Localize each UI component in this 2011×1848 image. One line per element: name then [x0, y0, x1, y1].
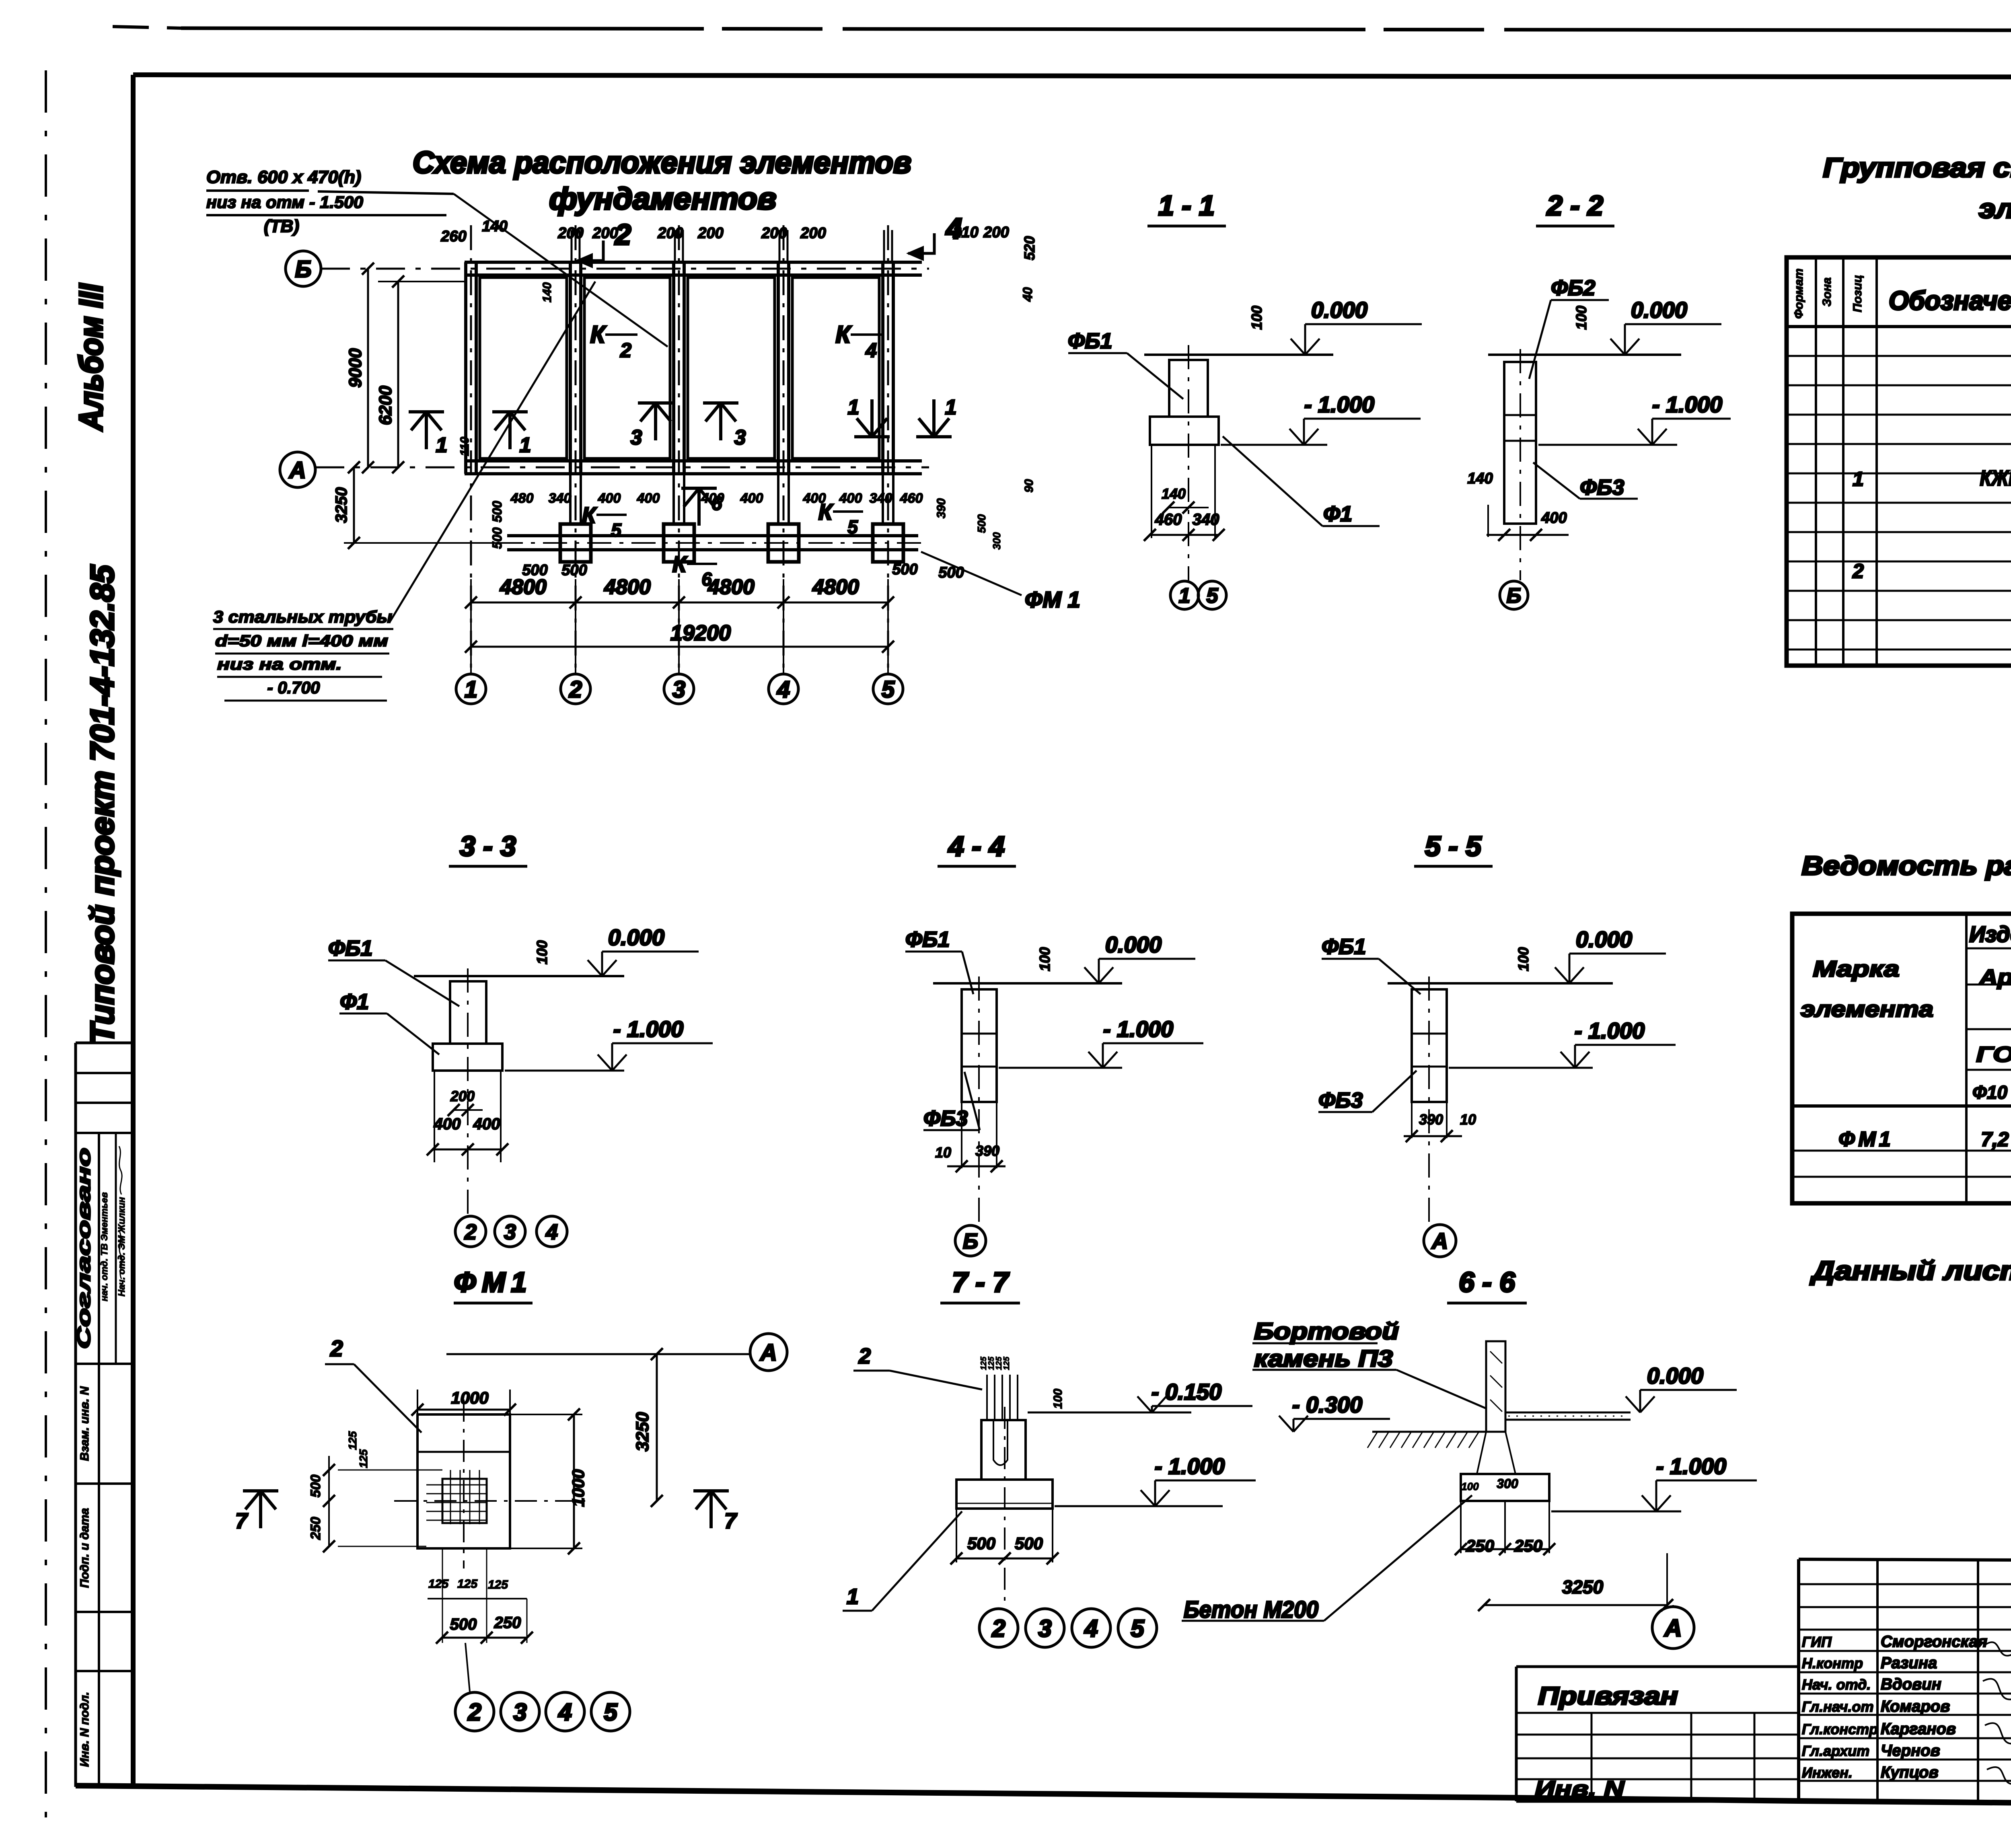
- svg-text:Ведомость расхода стали на: Ведомость расхода стали на элемент кг: [1802, 851, 2011, 880]
- detail ФМ1 section marks 7: [259, 1491, 262, 1528]
- svg-text:200: 200: [697, 225, 723, 242]
- svg-text:0.000: 0.000: [1576, 927, 1632, 952]
- svg-text:0.000: 0.000: [1105, 932, 1162, 957]
- svg-text:460: 460: [900, 491, 923, 506]
- section mark 6 upper: [697, 488, 701, 526]
- axis circle Б: [286, 251, 321, 286]
- detail ФМ1 dim 3250: [656, 1354, 658, 1501]
- svg-text:ГИП: ГИП: [1802, 1634, 1832, 1650]
- svg-text:7: 7: [235, 1509, 249, 1533]
- svg-text:4800: 4800: [707, 576, 755, 599]
- svg-text:ФБ3: ФБ3: [1580, 475, 1624, 500]
- wall stubs to strip: [569, 474, 572, 524]
- section 3-3 ground line: [414, 975, 624, 977]
- section 4-4 grid circle Б: [955, 1225, 986, 1256]
- svg-text:300: 300: [991, 532, 1003, 550]
- section 4-4 elevation -1.000: [999, 1067, 1122, 1069]
- svg-text:200: 200: [657, 225, 683, 242]
- section 7-7 floor line: [1028, 1412, 1191, 1414]
- svg-text:- 1.000: - 1.000: [1155, 1453, 1225, 1479]
- svg-text:Вдовин: Вдовин: [1881, 1675, 1941, 1693]
- svg-text:А: А: [1431, 1228, 1448, 1254]
- svg-text:5 - 5: 5 - 5: [1425, 830, 1482, 862]
- svg-text:камень П3: камень П3: [1254, 1346, 1393, 1372]
- svg-text:Привязан: Привязан: [1538, 1682, 1678, 1710]
- svg-text:0.000: 0.000: [1631, 297, 1687, 323]
- svg-text:Схема расположения элементов: Схема расположения элементов: [413, 146, 911, 180]
- svg-text:К: К: [672, 551, 688, 577]
- svg-text:340: 340: [549, 491, 572, 506]
- section 1-1 grid circles 1 and 5: [1170, 581, 1199, 609]
- section marks 1 right (down): [870, 399, 874, 437]
- svg-text:3250: 3250: [333, 487, 350, 523]
- svg-text:2: 2: [330, 1336, 343, 1361]
- svg-text:390: 390: [1419, 1111, 1443, 1128]
- svg-text:2: 2: [1852, 560, 1864, 582]
- spec table row lines: [1787, 355, 2011, 357]
- svg-text:А: А: [759, 1340, 777, 1366]
- svg-text:0.000: 0.000: [1647, 1363, 1703, 1388]
- svg-text:Согласовано: Согласовано: [73, 1148, 94, 1349]
- svg-text:Альбом III: Альбом III: [73, 283, 109, 432]
- section 7-7 centerline: [1004, 1407, 1005, 1607]
- svg-text:400: 400: [434, 1115, 461, 1133]
- svg-text:2: 2: [991, 1615, 1005, 1642]
- svg-text:3: 3: [1038, 1615, 1051, 1642]
- svg-text:10: 10: [935, 1144, 951, 1161]
- section 1-1 centerline: [1188, 345, 1189, 580]
- svg-text:Сморгонская: Сморгонская: [1881, 1633, 1987, 1651]
- axis Б centerline: [321, 268, 929, 270]
- svg-text:4800: 4800: [500, 576, 547, 599]
- svg-text:Нач. отд. ЭМ Жилкин: Нач. отд. ЭМ Жилкин: [116, 1197, 127, 1296]
- svg-text:500: 500: [975, 514, 988, 533]
- section 1-1 bottom dims: [1151, 445, 1152, 538]
- svg-text:ФМ 1: ФМ 1: [1025, 587, 1080, 612]
- section 6-6 curb stone: [1486, 1341, 1505, 1432]
- svg-text:480: 480: [510, 491, 534, 506]
- svg-text:400: 400: [839, 491, 862, 506]
- svg-text:ФБ1: ФБ1: [905, 927, 950, 952]
- svg-text:ГОСТ 5781 - 82: ГОСТ 5781 - 82: [1976, 1042, 2011, 1067]
- svg-text:3250: 3250: [633, 1412, 652, 1451]
- section 3-3 bottom dims: [434, 1071, 435, 1162]
- svg-text:ФБ1: ФБ1: [1068, 329, 1112, 353]
- svg-text:Обозначение: Обозначение: [1889, 286, 2011, 315]
- section 4-4 wall ФБ1/ФБ3: [962, 989, 997, 1102]
- svg-text:низ на отм.: низ на отм.: [217, 656, 342, 673]
- svg-text:Купцов: Купцов: [1881, 1764, 1939, 1781]
- axis circle А: [280, 452, 315, 487]
- svg-text:1: 1: [1853, 468, 1864, 490]
- svg-text:0.000: 0.000: [608, 925, 664, 950]
- svg-text:4800: 4800: [604, 576, 651, 599]
- svg-text:Взам. инв. N: Взам. инв. N: [78, 1386, 91, 1461]
- sidebar row lines: [76, 1072, 133, 1074]
- svg-text:4: 4: [865, 339, 877, 362]
- detail ФМ1 grid circles 2-5: [465, 1643, 470, 1692]
- svg-text:5: 5: [604, 1699, 618, 1726]
- svg-text:1: 1: [1179, 584, 1191, 608]
- section 1-1 ground line 0.000: [1144, 354, 1333, 356]
- svg-text:4: 4: [945, 213, 962, 245]
- leader from note to plan: [454, 194, 668, 347]
- svg-text:500: 500: [892, 561, 917, 578]
- svg-text:500: 500: [561, 562, 587, 579]
- svg-text:100: 100: [534, 940, 550, 964]
- svg-text:500: 500: [522, 562, 547, 579]
- svg-text:- 1.000: - 1.000: [1656, 1453, 1726, 1479]
- svg-text:- 1.000: - 1.000: [1103, 1016, 1173, 1042]
- svg-text:4: 4: [545, 1220, 558, 1244]
- main stamp left rows: [1799, 1583, 2011, 1585]
- section 3-3 centerline: [467, 968, 469, 1215]
- svg-text:250: 250: [494, 1614, 521, 1632]
- svg-text:90: 90: [1022, 479, 1036, 493]
- svg-text:Ф1: Ф1: [340, 990, 369, 1014]
- svg-text:Гл.нач.от: Гл.нач.от: [1802, 1698, 1874, 1715]
- svg-text:элементов: элементов: [1979, 193, 2011, 224]
- svg-text:40: 40: [1020, 287, 1035, 302]
- svg-text:390: 390: [975, 1143, 999, 1159]
- main stamp outline: [1797, 1559, 1800, 1802]
- svg-text:1: 1: [945, 396, 957, 419]
- svg-text:КЖИ - С1: КЖИ - С1: [1980, 466, 2011, 490]
- svg-text:1: 1: [520, 434, 531, 457]
- sheet fold dashed top line: [113, 27, 181, 28]
- steel table main verticals: [1965, 914, 1968, 1203]
- svg-text:125: 125: [346, 1431, 359, 1450]
- svg-text:ФБ1: ФБ1: [1322, 935, 1366, 959]
- svg-text:4: 4: [558, 1699, 572, 1726]
- svg-text:125: 125: [488, 1578, 508, 1591]
- plan bottom wall: [465, 459, 922, 463]
- section 2-2 elevation -1.000: [1538, 444, 1677, 446]
- section 4-4 centerline: [978, 976, 980, 1223]
- svg-text:5: 5: [847, 516, 858, 537]
- svg-text:3: 3: [513, 1699, 526, 1726]
- svg-text:300: 300: [1497, 1476, 1518, 1491]
- section 6-6 floor slab: [1505, 1412, 1631, 1414]
- section 3-3 pillar ФБ1: [450, 981, 486, 1044]
- svg-text:2: 2: [569, 676, 582, 703]
- svg-text:400: 400: [803, 491, 826, 506]
- svg-text:100: 100: [1515, 947, 1532, 971]
- svg-text:1000: 1000: [569, 1469, 588, 1507]
- section 6-6 dim 3250: [1484, 1604, 1667, 1606]
- detail ФМ1 bottom dims: [442, 1548, 443, 1643]
- svg-text:4800: 4800: [812, 576, 859, 599]
- detail ФМ1 outer square: [417, 1414, 510, 1548]
- left vertical dim 9000: [367, 269, 369, 467]
- section 7-7 elevation -1.000: [1055, 1505, 1223, 1507]
- section 5-5 bottom dims: [1411, 1102, 1413, 1138]
- svg-text:400: 400: [1541, 510, 1567, 526]
- svg-text:- 1.000: - 1.000: [613, 1016, 683, 1042]
- svg-text:5: 5: [882, 676, 895, 703]
- section 3-3 footing Ф1: [433, 1044, 502, 1071]
- svg-text:5: 5: [611, 520, 622, 541]
- svg-text:Инв. N: Инв. N: [1535, 1777, 1624, 1801]
- stamp Привязан box columns: [1591, 1713, 1593, 1801]
- section 2-2 centerline: [1520, 349, 1521, 580]
- svg-text:400: 400: [473, 1115, 500, 1133]
- svg-text:3: 3: [631, 426, 642, 449]
- dim line 4800 row: [471, 602, 888, 604]
- svg-text:низ на отм - 1.500: низ на отм - 1.500: [206, 193, 363, 212]
- plan axis centerlines vertical: [470, 225, 472, 676]
- svg-text:2: 2: [467, 1699, 481, 1726]
- grid circles 1-5: [470, 613, 472, 674]
- svg-text:Марка: Марка: [1813, 956, 1900, 981]
- stamp signatures scribble: [1985, 1642, 2011, 1674]
- svg-text:140: 140: [482, 218, 507, 235]
- svg-text:Данный лист см. совместно с: Данный лист см. совместно с листом 3: [1810, 1256, 2011, 1285]
- svg-text:3 стальных трубы: 3 стальных трубы: [213, 607, 392, 626]
- svg-text:200: 200: [983, 224, 1009, 241]
- steel table outline: [1792, 914, 2011, 1203]
- svg-text:200: 200: [800, 225, 826, 242]
- svg-text:500: 500: [1015, 1534, 1043, 1553]
- svg-text:Комаров: Комаров: [1881, 1698, 1950, 1715]
- section 7-7 grid circles 2-5: [979, 1609, 1018, 1647]
- sidebar signatures scribble: [119, 1146, 122, 1194]
- svg-text:d=50 мм l=400 мм: d=50 мм l=400 мм: [215, 632, 388, 650]
- section 7-7 anchor rods: [986, 1375, 988, 1420]
- svg-text:Инв. N подл.: Инв. N подл.: [78, 1692, 91, 1767]
- spec table outline: [1787, 257, 2011, 666]
- svg-text:7 - 7: 7 - 7: [952, 1266, 1010, 1298]
- svg-text:9000: 9000: [345, 348, 365, 388]
- section 3-3 elevation -1.000: [505, 1070, 624, 1072]
- section cut 2 at top: [577, 241, 603, 261]
- svg-text:К: К: [582, 502, 597, 528]
- svg-text:Чернов: Чернов: [1881, 1742, 1940, 1760]
- section marks 1 left: [425, 412, 428, 449]
- svg-text:Зона: Зона: [1820, 278, 1834, 306]
- section 1-1 footing Ф1: [1150, 417, 1219, 445]
- svg-text:400: 400: [740, 491, 763, 506]
- section 7-7 anchor U: [993, 1420, 1008, 1465]
- svg-text:3: 3: [672, 676, 685, 703]
- svg-text:3: 3: [504, 1220, 516, 1244]
- svg-text:140: 140: [1467, 470, 1493, 487]
- svg-text:Отв. 600 х 470(h): Отв. 600 х 470(h): [206, 167, 361, 187]
- svg-text:- 1.000: - 1.000: [1652, 392, 1722, 417]
- svg-text:500: 500: [967, 1534, 995, 1553]
- svg-text:- 1.000: - 1.000: [1575, 1018, 1645, 1043]
- stamp Привязан box rows: [1516, 1712, 1799, 1714]
- top wall extension ticks: [571, 230, 573, 262]
- svg-text:элемента: элемента: [1801, 996, 1933, 1022]
- svg-text:2: 2: [858, 1344, 871, 1368]
- svg-text:(ТВ): (ТВ): [264, 216, 299, 236]
- svg-text:Б: Б: [963, 1229, 978, 1253]
- svg-text:7: 7: [724, 1509, 738, 1533]
- svg-text:Ф1: Ф1: [1323, 502, 1352, 526]
- svg-text:250: 250: [308, 1517, 323, 1540]
- svg-text:200: 200: [592, 225, 618, 242]
- detail ФМ1 dim 1000 top: [417, 1390, 418, 1414]
- svg-text:1: 1: [436, 434, 448, 457]
- svg-text:4: 4: [1084, 1615, 1098, 1642]
- svg-text:1: 1: [847, 1585, 859, 1609]
- section 6-6 ground line with hatch: [1372, 1431, 1486, 1433]
- spec table header line: [1787, 325, 2011, 328]
- svg-text:140: 140: [1162, 485, 1186, 502]
- svg-text:140: 140: [541, 282, 554, 302]
- section 2-2 wall ФБ2/ФБ3: [1504, 362, 1536, 524]
- svg-text:400: 400: [701, 491, 724, 506]
- svg-text:7,2: 7,2: [1981, 1128, 2009, 1151]
- section cut 4 at top: [908, 233, 934, 253]
- svg-text:5: 5: [1131, 1615, 1145, 1642]
- section 5-5 elevation -1.000: [1449, 1067, 1593, 1069]
- svg-text:6 - 6: 6 - 6: [1459, 1266, 1515, 1298]
- detail ФМ1 reinforcement mesh: [426, 1484, 486, 1486]
- svg-text:1: 1: [848, 396, 860, 419]
- svg-text:100: 100: [1461, 1480, 1479, 1492]
- svg-text:125: 125: [357, 1449, 370, 1468]
- svg-text:3: 3: [734, 426, 746, 449]
- section 3-3 grid circles 2 3 4: [455, 1216, 486, 1247]
- svg-text:10: 10: [1460, 1111, 1476, 1128]
- svg-text:нач. отд. ТВ Эментьев: нач. отд. ТВ Эментьев: [99, 1192, 109, 1301]
- frame left border: [131, 75, 136, 1788]
- svg-text:К: К: [836, 321, 852, 348]
- svg-text:100: 100: [1573, 306, 1589, 330]
- section 6-6 footing block: [1461, 1474, 1549, 1501]
- detail ФМ1 left dims: [328, 1456, 330, 1546]
- svg-text:Н.контр: Н.контр: [1802, 1655, 1863, 1671]
- svg-text:1: 1: [465, 676, 477, 703]
- svg-text:- 0.700: - 0.700: [267, 678, 320, 697]
- svg-text:125: 125: [457, 1577, 478, 1591]
- svg-text:фундаментов: фундаментов: [549, 182, 777, 216]
- section 4-4 bottom dims: [961, 1102, 962, 1168]
- axis А centerline: [315, 467, 929, 469]
- svg-text:Арматура класса: Арматура класса: [1978, 965, 2011, 989]
- svg-text:5: 5: [1207, 584, 1219, 608]
- section 7-7 bottom dims 500 500: [956, 1509, 957, 1562]
- section 7-7 pillar: [981, 1420, 1026, 1480]
- svg-text:ФМ1: ФМ1: [1838, 1128, 1894, 1151]
- svg-text:460: 460: [1155, 511, 1182, 528]
- plan cross walls on axes: [464, 262, 467, 474]
- svg-text:3 - 3: 3 - 3: [460, 830, 516, 862]
- svg-text:6200: 6200: [376, 386, 395, 425]
- svg-text:0.000: 0.000: [1311, 297, 1367, 323]
- svg-text:- 1.000: - 1.000: [1304, 392, 1374, 417]
- sidebar column outline: [74, 1043, 77, 1787]
- steel table header horizontals: [1966, 948, 2011, 950]
- svg-text:6: 6: [701, 569, 712, 590]
- svg-text:520: 520: [1021, 236, 1038, 260]
- svg-text:340: 340: [1193, 511, 1219, 528]
- svg-text:3250: 3250: [1562, 1577, 1604, 1597]
- svg-text:ФМ1: ФМ1: [454, 1266, 533, 1298]
- svg-text:Карганов: Карганов: [1881, 1720, 1956, 1738]
- frame top border: [133, 75, 2011, 78]
- main stamp left verticals: [1876, 1559, 1879, 1802]
- section 4-4 ground line: [933, 982, 1122, 985]
- section 5-5 grid circle А: [1424, 1225, 1456, 1257]
- section 5-5 wall ФБ1/ФБ3: [1412, 989, 1447, 1102]
- svg-text:Типовой проект 701-4-132.85: Типовой проект 701-4-132.85: [84, 565, 121, 1044]
- left outer dash-dot fold line: [45, 70, 47, 1834]
- svg-text:Групповая спецификация для: Групповая спецификация для монолитных: [1823, 152, 2011, 183]
- svg-text:Ф10: Ф10: [1972, 1082, 2007, 1103]
- svg-text:100: 100: [1248, 306, 1265, 330]
- svg-text:ФБ2: ФБ2: [1551, 276, 1595, 300]
- svg-text:Инжен.: Инжен.: [1802, 1764, 1853, 1781]
- svg-text:Гл.архит: Гл.архит: [1802, 1743, 1869, 1759]
- sidebar vertical dividers: [98, 1133, 100, 1787]
- section 7-7 footing: [956, 1480, 1053, 1509]
- svg-text:Позиц: Позиц: [1851, 275, 1864, 312]
- left vertical dim 3250: [353, 467, 355, 543]
- svg-text:500: 500: [450, 1616, 477, 1633]
- svg-text:2 - 2: 2 - 2: [1546, 190, 1603, 221]
- detail ФМ1 dim 1000 right: [510, 1414, 582, 1415]
- svg-text:400: 400: [598, 491, 621, 506]
- svg-text:Гл.констр: Гл.констр: [1802, 1721, 1878, 1737]
- plan top wall: [465, 261, 922, 264]
- svg-text:100: 100: [1036, 947, 1053, 971]
- svg-text:Разина: Разина: [1881, 1654, 1937, 1672]
- detail ФМ1 pad square: [442, 1479, 487, 1523]
- section 5-5 ground line: [1388, 982, 1613, 985]
- detail ФМ1 centerlines: [394, 1500, 585, 1502]
- svg-text:Б: Б: [295, 256, 311, 282]
- svg-text:400: 400: [637, 491, 660, 506]
- svg-text:ФБ1: ФБ1: [328, 936, 372, 960]
- strip pads: [560, 524, 591, 562]
- plan bay inner rectangles: [480, 278, 567, 458]
- svg-text:Нач. отд.: Нач. отд.: [1802, 1676, 1871, 1693]
- leader from pipes note to plan: [390, 282, 595, 621]
- svg-text:250: 250: [1466, 1536, 1494, 1555]
- svg-text:1 - 1: 1 - 1: [1158, 190, 1215, 221]
- svg-text:250: 250: [1514, 1536, 1542, 1555]
- svg-text:500: 500: [490, 501, 504, 522]
- section marks 3 middle: [654, 403, 657, 440]
- section 6-6 elevation -1.000: [1551, 1511, 1681, 1513]
- svg-text:1000: 1000: [451, 1388, 488, 1407]
- svg-text:500: 500: [938, 564, 964, 581]
- svg-text:Изделия арматурные: Изделия арматурные: [1969, 921, 2011, 947]
- svg-text:100: 100: [1051, 1389, 1065, 1409]
- foundation strip: [507, 534, 918, 537]
- svg-text:110: 110: [458, 437, 471, 456]
- svg-text:Бетон М200: Бетон М200: [1184, 1597, 1318, 1623]
- svg-text:390: 390: [935, 498, 948, 518]
- svg-text:2: 2: [614, 219, 631, 251]
- svg-text:2: 2: [464, 1220, 477, 1244]
- svg-text:260: 260: [440, 228, 466, 245]
- svg-text:Б: Б: [1507, 584, 1522, 608]
- section 6-6 grid circle А: [1652, 1607, 1694, 1649]
- svg-text:Формат: Формат: [1792, 268, 1805, 319]
- svg-text:500: 500: [490, 527, 504, 549]
- svg-text:4: 4: [777, 676, 790, 703]
- section 2-2 grid circle Б: [1500, 581, 1528, 609]
- spec table verticals: [1815, 257, 1817, 666]
- section 6-6 dims 250 250: [1460, 1501, 1462, 1553]
- svg-text:125: 125: [1002, 1356, 1011, 1370]
- svg-text:340: 340: [870, 491, 892, 506]
- svg-text:125: 125: [428, 1577, 449, 1591]
